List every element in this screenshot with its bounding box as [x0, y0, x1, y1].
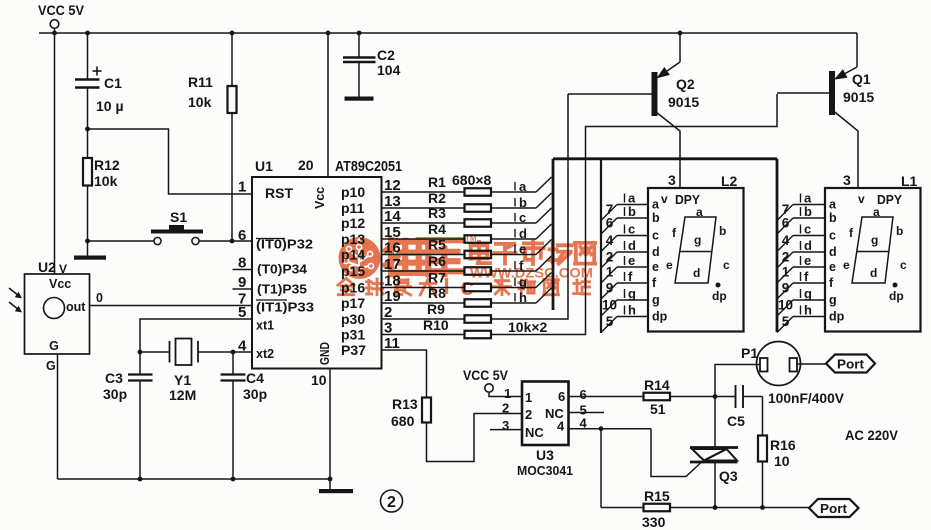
svg-text:9015: 9015	[668, 94, 699, 110]
svg-text:1: 1	[606, 265, 614, 280]
svg-text:e: e	[652, 260, 659, 274]
wire RST network	[88, 129, 253, 194]
svg-text:2: 2	[606, 250, 614, 265]
svg-text:p12: p12	[341, 215, 365, 231]
resistor R7	[383, 270, 537, 292]
bus vertical left	[552, 159, 555, 310]
svg-text:2: 2	[525, 407, 532, 422]
resistor R12	[83, 158, 92, 186]
svg-text:dp: dp	[889, 289, 904, 303]
display L1 box	[825, 188, 921, 332]
node C1/R12	[85, 127, 90, 132]
svg-text:g: g	[628, 286, 636, 301]
pin stub 9	[233, 288, 253, 290]
MCU U1 AT89C2051	[252, 177, 382, 369]
svg-text:R7: R7	[428, 270, 446, 286]
svg-text:AT89C2051: AT89C2051	[335, 159, 402, 175]
U3 outer pin numbers	[502, 386, 588, 433]
watermark logo circle (dzsc)	[339, 237, 381, 279]
svg-text:3: 3	[502, 418, 509, 433]
ground C2	[345, 97, 374, 101]
display L2 digit	[666, 205, 730, 303]
resistor R6	[383, 253, 537, 275]
svg-text:4: 4	[606, 233, 614, 248]
svg-text:f: f	[628, 269, 633, 284]
wire segment a	[515, 177, 552, 194]
svg-text:Q1: Q1	[852, 71, 871, 87]
svg-text:(T0)P34: (T0)P34	[257, 262, 308, 277]
svg-text:0: 0	[96, 291, 103, 305]
svg-text:R9: R9	[427, 301, 445, 317]
svg-text:680×8: 680×8	[452, 172, 492, 188]
pin stub 8	[233, 269, 253, 271]
svg-text:6: 6	[606, 216, 614, 231]
svg-text:c: c	[829, 229, 836, 243]
svg-text:p15: p15	[341, 263, 365, 279]
svg-text:a: a	[519, 179, 527, 194]
svg-text:2: 2	[387, 494, 396, 511]
svg-text:g: g	[694, 233, 701, 247]
svg-text:R4: R4	[428, 221, 446, 237]
svg-text:b: b	[519, 195, 527, 210]
svg-text:104: 104	[377, 62, 401, 78]
svg-text:G: G	[46, 359, 56, 373]
svg-text:f: f	[652, 276, 657, 290]
svg-text:NC: NC	[525, 425, 544, 440]
svg-text:e: e	[519, 242, 526, 257]
wire segment d	[515, 224, 552, 241]
svg-text:e: e	[628, 253, 635, 268]
svg-text:d: d	[829, 245, 837, 259]
wire U2 out to P33	[90, 305, 253, 307]
svg-text:g: g	[519, 275, 527, 290]
watermark big brand text	[386, 234, 595, 274]
plug P1	[715, 342, 826, 397]
svg-text:g: g	[804, 286, 812, 301]
svg-text:L2: L2	[721, 173, 738, 189]
svg-text:30p: 30p	[243, 386, 267, 402]
wire R13 to U3 pin2	[427, 414, 523, 462]
svg-text:2: 2	[782, 250, 790, 265]
node U1 gnd	[328, 477, 333, 482]
svg-text:RST: RST	[265, 185, 293, 201]
wire segment h	[515, 288, 552, 305]
capacitor C5	[727, 385, 763, 429]
svg-text:xt1: xt1	[256, 319, 274, 333]
display L2 pin taps	[601, 191, 668, 333]
svg-text:Port: Port	[820, 502, 848, 516]
svg-text:C5: C5	[727, 413, 745, 429]
svg-text:R15: R15	[644, 488, 670, 504]
svg-text:c: c	[723, 258, 730, 272]
svg-text:R3: R3	[428, 205, 446, 221]
svg-text:10: 10	[778, 298, 793, 313]
resistor R13	[391, 396, 431, 429]
capacitor C4	[232, 352, 234, 375]
svg-text:P37: P37	[341, 342, 366, 358]
svg-text:p14: p14	[341, 247, 365, 263]
node VCC-U2	[52, 31, 57, 36]
svg-text:C3: C3	[105, 370, 123, 386]
svg-text:AC 220V: AC 220V	[845, 427, 899, 443]
svg-text:10: 10	[774, 453, 790, 469]
node C1 top	[85, 31, 90, 36]
svg-text:R2: R2	[428, 190, 446, 206]
svg-text:p10: p10	[341, 184, 365, 200]
svg-text:c: c	[804, 222, 811, 237]
svg-text:U1: U1	[255, 158, 273, 174]
svg-text:Vcc: Vcc	[313, 187, 327, 209]
resistor R3	[383, 205, 537, 227]
svg-text:C4: C4	[246, 370, 264, 386]
IR receiver U2	[25, 274, 90, 354]
svg-text:R14: R14	[644, 377, 670, 393]
svg-text:b: b	[829, 211, 837, 225]
svg-text:(T1)P35: (T1)P35	[257, 282, 307, 297]
svg-text:(IT1)P33: (IT1)P33	[256, 300, 314, 315]
VCC terminal	[50, 20, 59, 29]
svg-text:5: 5	[238, 304, 246, 321]
svg-text:1: 1	[782, 265, 790, 280]
svg-text:330: 330	[642, 514, 666, 530]
wire R10 to Q1 base	[491, 94, 777, 335]
node xt2/C4	[231, 350, 236, 355]
svg-text:v: v	[661, 192, 668, 206]
svg-text:c: c	[900, 258, 907, 272]
svg-text:a: a	[696, 205, 703, 219]
svg-text:1: 1	[238, 179, 246, 196]
svg-text:4: 4	[557, 419, 565, 434]
svg-text:9015: 9015	[843, 89, 874, 105]
display L2 labels	[661, 172, 738, 207]
display L1 labels	[843, 172, 918, 207]
display L2 box	[648, 188, 744, 332]
port connector bottom	[809, 499, 859, 517]
svg-text:R8: R8	[428, 285, 446, 301]
switch S1	[88, 240, 155, 242]
svg-text:1: 1	[525, 390, 532, 405]
svg-text:10k×2: 10k×2	[508, 319, 548, 335]
svg-text:f: f	[829, 276, 834, 290]
node C4 gnd	[231, 477, 236, 482]
svg-text:30p: 30p	[103, 386, 127, 402]
svg-text:680: 680	[391, 413, 415, 429]
svg-text:6: 6	[782, 216, 790, 231]
resistor R4	[383, 221, 537, 243]
figure number 2	[381, 490, 403, 512]
svg-text:dp: dp	[652, 310, 668, 324]
svg-text:f: f	[672, 226, 677, 240]
svg-text:10 µ: 10 µ	[96, 98, 124, 114]
svg-text:out: out	[66, 300, 86, 314]
resistor R9	[383, 301, 492, 323]
resistor R11	[228, 86, 237, 113]
wire bottom AC row	[601, 505, 809, 510]
svg-text:xt2: xt2	[256, 347, 274, 361]
svg-text:g: g	[652, 293, 660, 307]
svg-text:p16: p16	[341, 280, 365, 296]
svg-text:S1: S1	[170, 209, 187, 225]
svg-text:10k: 10k	[188, 94, 212, 110]
svg-text:e: e	[804, 253, 811, 268]
svg-text:9: 9	[606, 281, 614, 296]
svg-text:p11: p11	[341, 200, 365, 216]
svg-text:R5: R5	[428, 237, 446, 253]
svg-text:b: b	[896, 224, 903, 238]
display L1 pin taps	[777, 191, 845, 333]
svg-text:dp: dp	[829, 310, 845, 324]
wire pin11 to R13	[383, 350, 427, 398]
svg-text:a: a	[652, 198, 660, 212]
svg-text:100nF/400V: 100nF/400V	[768, 390, 845, 406]
display L1 digit	[843, 205, 907, 303]
svg-text:p17: p17	[341, 295, 365, 311]
pin3 stub NC	[490, 429, 522, 431]
ground U1 GND	[329, 369, 331, 490]
crystal Y1	[140, 351, 170, 353]
svg-text:3: 3	[668, 172, 676, 188]
resistor R15	[642, 488, 670, 530]
svg-text:C1: C1	[104, 75, 122, 91]
wire U2 ground	[57, 354, 59, 479]
svg-text:6: 6	[558, 389, 565, 404]
svg-text:5: 5	[782, 314, 790, 329]
svg-text:d: d	[519, 226, 527, 241]
svg-text:2: 2	[502, 401, 509, 416]
svg-text:Q2: Q2	[676, 76, 695, 92]
svg-text:3: 3	[843, 172, 851, 188]
transistor Q2 9015	[568, 31, 699, 188]
svg-text:Port: Port	[837, 358, 865, 372]
resistor R5	[383, 237, 537, 259]
wire bottom rail	[58, 478, 331, 480]
svg-text:Y1: Y1	[174, 372, 191, 388]
svg-text:h: h	[804, 303, 812, 318]
svg-text:p30: p30	[341, 311, 365, 327]
svg-text:L1: L1	[901, 173, 918, 189]
svg-text:10: 10	[602, 298, 617, 313]
svg-text:C: C	[460, 278, 473, 299]
svg-text:Vcc: Vcc	[49, 277, 71, 291]
wire segment f	[515, 256, 552, 273]
svg-text:e: e	[829, 260, 836, 274]
svg-text:dp: dp	[712, 289, 727, 303]
svg-text:d: d	[804, 238, 812, 253]
resistor R10	[383, 317, 492, 338]
resistor R1	[383, 174, 537, 196]
svg-text:b: b	[804, 204, 812, 219]
resistor R14	[569, 377, 671, 417]
triac Q3	[690, 397, 738, 508]
svg-text:f: f	[804, 269, 809, 284]
wire segment e	[515, 240, 552, 257]
svg-text:1: 1	[504, 386, 511, 401]
svg-text:c: c	[519, 210, 526, 225]
svg-text:h: h	[628, 303, 636, 318]
svg-text:f: f	[519, 258, 524, 273]
resistor R8	[383, 285, 537, 307]
capacitor C2	[343, 31, 401, 97]
svg-text:R6: R6	[428, 253, 446, 269]
svg-text:10k: 10k	[94, 173, 118, 189]
bus L2 drop	[600, 159, 602, 333]
svg-text:4: 4	[782, 233, 790, 248]
transistor Q1 9015	[777, 33, 874, 188]
svg-text:DPY: DPY	[877, 193, 903, 207]
svg-text:C2: C2	[377, 47, 395, 63]
node C3 gnd	[138, 477, 143, 482]
svg-text:b: b	[628, 204, 636, 219]
svg-text:d: d	[870, 266, 877, 280]
svg-text:12M: 12M	[169, 387, 196, 403]
svg-text:h: h	[519, 290, 527, 305]
svg-text:P1: P1	[741, 345, 758, 361]
svg-text:20: 20	[298, 157, 314, 173]
svg-text:GND: GND	[317, 342, 332, 365]
U1 right pin labels	[341, 177, 401, 358]
svg-text:c: c	[628, 222, 635, 237]
wire segment c	[515, 208, 552, 225]
svg-text:d: d	[652, 245, 660, 259]
bus L1 drop	[776, 159, 779, 332]
port connector top	[826, 355, 875, 373]
svg-text:g: g	[871, 233, 878, 247]
node R14/C5/P1/triac	[670, 394, 736, 399]
resistor R2	[383, 190, 537, 212]
svg-text:10: 10	[311, 372, 327, 388]
svg-text:f: f	[849, 226, 854, 240]
capacitor C3	[128, 373, 153, 375]
svg-text:U2: U2	[38, 259, 56, 275]
optocoupler U3 MOC3041	[517, 382, 573, 479]
svg-text:e: e	[843, 258, 850, 272]
svg-text:b: b	[719, 224, 726, 238]
svg-text:a: a	[829, 198, 837, 212]
VCC 5V terminal U3	[463, 368, 522, 397]
bus horizontal	[553, 157, 777, 160]
wire segment g	[515, 273, 552, 290]
svg-text:a: a	[873, 205, 880, 219]
svg-text:51: 51	[650, 401, 666, 417]
svg-text:Q3: Q3	[719, 468, 738, 484]
svg-text:e: e	[666, 258, 673, 272]
wire xt1	[140, 319, 252, 375]
wire top rail	[39, 32, 857, 34]
wire U3 pin4	[569, 426, 702, 507]
svg-text:9: 9	[782, 281, 790, 296]
svg-text:v: v	[858, 192, 865, 206]
svg-text:MOC3041: MOC3041	[517, 463, 573, 478]
svg-text:6: 6	[238, 227, 246, 244]
light arrows	[9, 288, 19, 296]
svg-text:R16: R16	[770, 437, 796, 453]
resistor R16	[758, 397, 796, 508]
svg-text:R12: R12	[94, 157, 120, 173]
svg-text:VCC 5V: VCC 5V	[463, 368, 508, 383]
capacitor C1	[87, 33, 89, 80]
svg-text:G: G	[49, 339, 59, 353]
svg-text:R1: R1	[428, 174, 446, 190]
wire pin20 Vcc	[327, 33, 329, 177]
node S1/P32	[230, 239, 235, 244]
node xt1/Y1	[138, 350, 143, 355]
svg-text:5: 5	[606, 314, 614, 329]
ground S1	[85, 239, 90, 244]
svg-text:p13: p13	[341, 231, 365, 247]
svg-text:4: 4	[238, 338, 247, 355]
svg-text:U3: U3	[536, 447, 554, 463]
watermark url text	[470, 265, 593, 281]
svg-text:d: d	[628, 238, 636, 253]
svg-text:R10: R10	[423, 317, 449, 333]
wire VCC to U2	[54, 33, 56, 274]
wire R9 to Q2 base	[491, 94, 568, 319]
wire segment b	[515, 193, 552, 210]
svg-text:R13: R13	[392, 396, 418, 412]
svg-text:b: b	[652, 211, 660, 225]
U1 left pin numbers	[238, 179, 247, 355]
svg-text:p31: p31	[341, 327, 365, 343]
svg-text:c: c	[652, 229, 659, 243]
pin5 stub NC	[569, 412, 605, 414]
svg-text:d: d	[693, 266, 700, 280]
svg-text:V: V	[59, 262, 67, 276]
U1 pin labels	[256, 185, 332, 365]
svg-text:VCC 5V: VCC 5V	[38, 3, 84, 18]
svg-text:R11: R11	[188, 74, 213, 90]
svg-text:g: g	[829, 293, 837, 307]
svg-text:6: 6	[580, 387, 587, 402]
watermark slogan row	[338, 278, 590, 299]
